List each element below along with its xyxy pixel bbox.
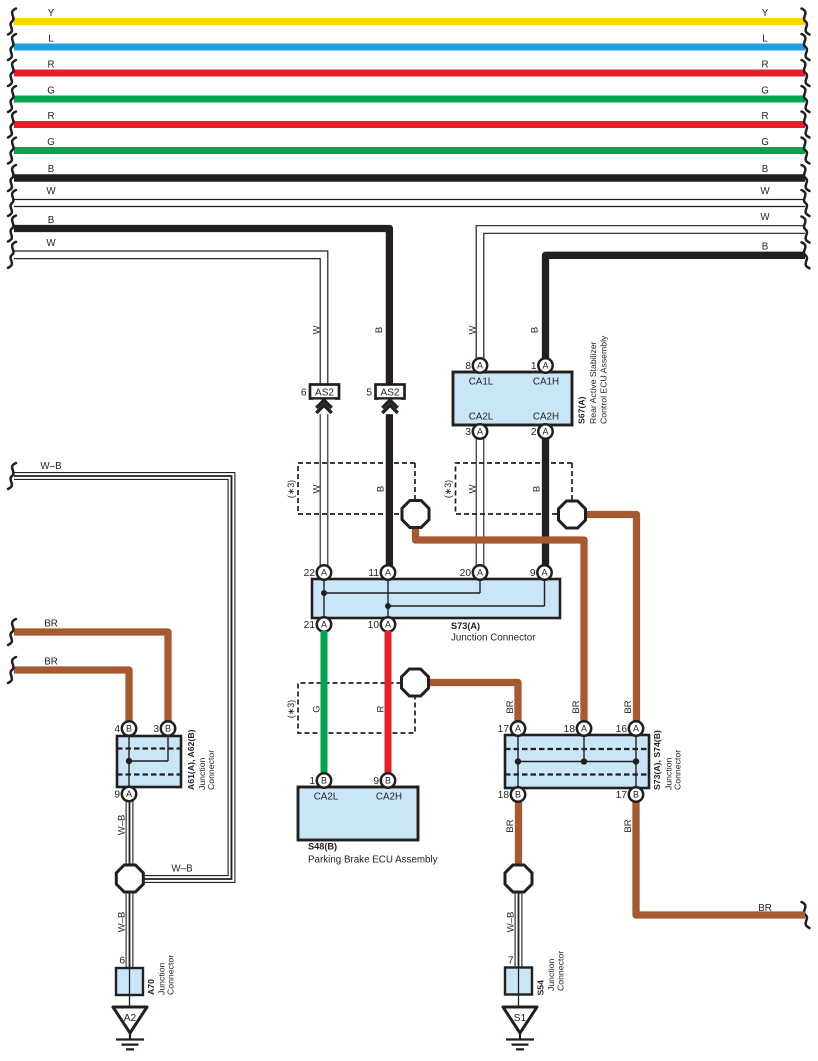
- svg-text:CA1H: CA1H: [533, 377, 559, 388]
- wire G from pin 21 to S48 pin 1: [321, 631, 328, 774]
- svg-text:BR: BR: [758, 903, 772, 914]
- svg-text:(∗3): (∗3): [286, 700, 296, 718]
- wire bus B: [14, 164, 805, 178]
- svg-text:S54: S54: [536, 980, 546, 996]
- junction connector A70: [116, 955, 176, 1007]
- wire BR left lower to A61 pin 4: [14, 657, 129, 723]
- pin 2 A of S67: [531, 424, 553, 438]
- svg-text:A2: A2: [124, 1013, 137, 1024]
- svg-text:BR: BR: [623, 819, 634, 832]
- svg-text:S67(A): S67(A): [577, 396, 587, 424]
- svg-text:9: 9: [530, 568, 536, 579]
- svg-text:BR: BR: [44, 657, 58, 668]
- wire W right vertical label: [468, 325, 479, 334]
- svg-text:S73(A): S73(A): [451, 621, 480, 631]
- svg-text:G: G: [47, 137, 55, 148]
- svg-text:CA1L: CA1L: [469, 377, 494, 388]
- wire bus G2: [14, 137, 805, 151]
- svg-text:CA2H: CA2H: [533, 412, 559, 423]
- ECU S48(B) Parking Brake ECU Assembly: [298, 787, 438, 866]
- svg-text:BR: BR: [623, 700, 634, 713]
- shield octagon 5: [505, 865, 532, 892]
- svg-text:BR: BR: [44, 619, 58, 630]
- svg-text:B: B: [530, 327, 541, 333]
- svg-text:W: W: [312, 484, 323, 493]
- pin 3 A of S67: [465, 424, 487, 438]
- wire BR from pin 18B to shield octagon 5: [515, 801, 522, 866]
- svg-text:1: 1: [531, 361, 537, 372]
- svg-text:B: B: [376, 486, 387, 492]
- svg-text:20: 20: [460, 568, 472, 579]
- wire B left to AS2 5: [14, 215, 389, 385]
- svg-text:CA2L: CA2L: [314, 792, 339, 803]
- svg-text:8: 8: [465, 361, 471, 372]
- svg-text:A: A: [515, 723, 521, 733]
- wire BR from shield octagon 1 to junction pin 18A: [416, 526, 585, 722]
- svg-text:18: 18: [498, 790, 510, 801]
- wire B right to S67 pin 1: [546, 242, 806, 359]
- wire BR from pin 17B to right edge: [636, 801, 805, 915]
- wire BR from shield octagon 2 to junction pin 16A: [585, 515, 637, 723]
- svg-text:3: 3: [153, 724, 159, 735]
- svg-text:7: 7: [508, 956, 514, 967]
- svg-text:W: W: [760, 186, 770, 197]
- svg-text:Connector: Connector: [166, 955, 176, 995]
- svg-text:W: W: [46, 238, 56, 249]
- wire bus R2: [14, 111, 805, 125]
- svg-text:W–B: W–B: [117, 912, 128, 933]
- ground triangle S1: [503, 1007, 537, 1033]
- wire B vertical label: [374, 327, 385, 333]
- svg-text:5: 5: [366, 388, 372, 399]
- svg-text:B: B: [532, 486, 543, 492]
- svg-text:S73(A), S74(B): S73(A), S74(B): [652, 730, 662, 790]
- pin 22 A of S73(A): [304, 565, 332, 579]
- ground symbol below S1: [506, 1033, 534, 1049]
- svg-text:B: B: [321, 775, 327, 785]
- svg-text:Connector: Connector: [556, 951, 566, 991]
- svg-text:10: 10: [368, 620, 380, 631]
- svg-text:Connector: Connector: [206, 750, 216, 790]
- svg-text:CA2H: CA2H: [376, 792, 402, 803]
- wire tear marks right edge: [802, 9, 810, 929]
- svg-text:A: A: [477, 567, 483, 577]
- svg-text:B: B: [385, 775, 391, 785]
- ECU S67(A) Rear Active Stabilizer Control ECU Assembly: [453, 335, 609, 425]
- svg-text:A: A: [477, 426, 483, 436]
- shield dashed box G/R (*3): [286, 683, 415, 733]
- wire W-B from octagon 5 to S54: [506, 893, 522, 968]
- ground symbol below A2: [116, 1033, 144, 1049]
- wire W-B from left bus to junction octagon: [14, 461, 235, 882]
- BR label below pin 18B: [505, 819, 516, 832]
- pin 9 B of S48: [373, 773, 395, 787]
- svg-text:CA2L: CA2L: [469, 412, 494, 423]
- pin 9 A of A61: [114, 787, 136, 801]
- pin 1 B of S48: [309, 773, 331, 787]
- shield octagon 4: [116, 865, 143, 892]
- svg-text:B: B: [633, 789, 639, 799]
- svg-text:9: 9: [373, 776, 379, 787]
- svg-text:BR: BR: [571, 700, 582, 713]
- pin 18 B of S73(A),S74(B): [498, 787, 526, 801]
- shield octagon 3: [402, 669, 429, 696]
- pin 4 B of A61: [114, 721, 136, 735]
- svg-text:A: A: [321, 567, 327, 577]
- svg-text:G: G: [47, 86, 55, 97]
- svg-text:BR: BR: [505, 700, 516, 713]
- svg-text:AS2: AS2: [381, 387, 400, 398]
- junction connector S73(A),S74(B) box: [505, 730, 683, 790]
- svg-text:G: G: [761, 137, 769, 148]
- wire bus L: [14, 34, 805, 48]
- svg-text:B: B: [762, 164, 769, 175]
- BR label above pin 16A: [623, 700, 634, 713]
- wire W right to S67 pin 8: [476, 212, 805, 359]
- wire bus Y: [14, 8, 805, 22]
- svg-text:S48(B): S48(B): [308, 842, 337, 852]
- svg-text:A: A: [385, 567, 391, 577]
- BR label below pin 17B: [623, 819, 634, 832]
- svg-text:B: B: [515, 789, 521, 799]
- svg-text:A61(A), A62(B): A61(A), A62(B): [186, 729, 196, 790]
- svg-text:Control ECU Assembly: Control ECU Assembly: [599, 335, 609, 424]
- svg-text:16: 16: [616, 724, 628, 735]
- svg-text:11: 11: [368, 568, 379, 579]
- svg-text:B: B: [762, 242, 769, 253]
- svg-text:1: 1: [309, 776, 315, 787]
- svg-text:4: 4: [114, 724, 120, 735]
- pin 18 A of S73(A),S74(B): [564, 721, 592, 735]
- svg-text:(∗3): (∗3): [286, 480, 296, 498]
- wire B right vertical label: [530, 327, 541, 333]
- shield dashed box left W/B (*3): [286, 463, 415, 514]
- BR label above pin 17A: [505, 700, 516, 713]
- svg-text:18: 18: [564, 724, 576, 735]
- svg-text:B: B: [48, 215, 55, 226]
- svg-text:A: A: [542, 426, 548, 436]
- svg-text:B: B: [165, 723, 171, 733]
- wire B from S67 pin 2 to junction S73A pin 9: [542, 439, 549, 567]
- svg-text:S1: S1: [514, 1013, 527, 1024]
- svg-text:B: B: [48, 164, 55, 175]
- svg-text:R: R: [761, 111, 768, 122]
- svg-text:(∗3): (∗3): [443, 480, 453, 498]
- svg-text:G: G: [761, 86, 769, 97]
- svg-text:W–B: W–B: [117, 815, 128, 836]
- svg-text:W–B: W–B: [171, 864, 193, 875]
- svg-text:A: A: [633, 723, 639, 733]
- svg-text:R: R: [761, 60, 768, 71]
- junction connector A61(A),A62(B) box: [117, 729, 216, 790]
- svg-text:W: W: [468, 484, 479, 493]
- wire B from AS2 5 to junction S73A pin 11: [386, 398, 393, 567]
- svg-text:Parking Brake ECU Assembly: Parking Brake ECU Assembly: [308, 855, 438, 866]
- wire R from pin 10 to S48 pin 9: [385, 631, 392, 774]
- pin 3 B of A61: [153, 721, 175, 735]
- svg-text:R: R: [47, 111, 54, 122]
- pin 9 A of S73(A): [530, 565, 552, 579]
- svg-text:A: A: [542, 360, 548, 370]
- svg-text:AS2: AS2: [315, 387, 334, 398]
- shield dashed box right W/B (*3): [443, 463, 572, 514]
- wire bus G1: [14, 86, 805, 100]
- svg-text:L: L: [48, 34, 54, 45]
- ground triangle A2: [113, 1007, 147, 1033]
- wire bus W (double line): [14, 186, 805, 207]
- svg-text:3: 3: [465, 427, 471, 438]
- svg-text:A: A: [321, 619, 327, 629]
- wire W vertical label: [312, 325, 323, 334]
- svg-text:A: A: [385, 619, 391, 629]
- connector AS2 pin 6: [301, 385, 339, 415]
- svg-text:W–B: W–B: [506, 912, 517, 933]
- svg-text:Junction Connector: Junction Connector: [451, 633, 536, 644]
- wire W from AS2 6 to junction S73A pin 22: [320, 398, 328, 567]
- svg-text:R: R: [47, 60, 54, 71]
- BR label above pin 18A: [571, 700, 582, 713]
- pin 17 A of S73(A),S74(B): [498, 721, 526, 735]
- junction connector S54: [505, 951, 566, 1007]
- svg-text:6: 6: [119, 956, 125, 967]
- pin 20 A of S73(A): [460, 565, 488, 579]
- svg-text:Y: Y: [48, 8, 55, 19]
- svg-text:W: W: [46, 186, 56, 197]
- svg-text:A70: A70: [146, 979, 156, 995]
- svg-text:21: 21: [304, 620, 316, 631]
- svg-text:B: B: [374, 327, 385, 333]
- pin 16 A of S73(A),S74(B): [616, 721, 644, 735]
- junction connector S73(A) box: [312, 579, 560, 644]
- svg-text:17: 17: [616, 790, 628, 801]
- pin 1 A of S67: [531, 358, 553, 372]
- wire BR from shield octagon 3 to junction pin 17A: [428, 683, 519, 723]
- wire W-B from A61 pin 9 to octagon 4: [117, 801, 133, 866]
- svg-text:A: A: [477, 360, 483, 370]
- pin 21 A of S73(A): [304, 617, 332, 631]
- svg-text:Connector: Connector: [673, 750, 683, 790]
- wire W from S67 pin 3 to junction S73A pin 20: [476, 439, 484, 567]
- svg-text:L: L: [762, 34, 768, 45]
- wire W left to AS2 6: [14, 238, 328, 385]
- pin 8 A of S67: [465, 358, 487, 372]
- wire W-B from octagon 4 to A70: [117, 893, 133, 969]
- svg-text:A: A: [581, 723, 587, 733]
- svg-text:W: W: [468, 325, 479, 334]
- pin 17 B of S73(A),S74(B): [616, 787, 644, 801]
- wire bus R1: [14, 60, 805, 74]
- svg-text:A: A: [541, 567, 547, 577]
- wire tear marks left edge: [8, 9, 16, 684]
- svg-text:A: A: [126, 789, 132, 799]
- shield octagon 2: [559, 501, 586, 528]
- svg-text:Rear Active Stabilizer: Rear Active Stabilizer: [588, 341, 598, 424]
- svg-text:2: 2: [531, 427, 537, 438]
- svg-text:B: B: [126, 723, 132, 733]
- svg-text:W–B: W–B: [40, 461, 62, 472]
- pin 10 A of S73(A): [368, 617, 396, 631]
- svg-text:W: W: [312, 325, 323, 334]
- svg-text:9: 9: [114, 790, 120, 801]
- pin 11 A of S73(A): [368, 565, 395, 579]
- svg-text:6: 6: [301, 388, 307, 399]
- svg-text:22: 22: [304, 568, 316, 579]
- svg-text:Junction: Junction: [546, 958, 556, 991]
- svg-text:W: W: [760, 212, 770, 223]
- svg-text:17: 17: [498, 724, 510, 735]
- shield octagon 1: [402, 501, 429, 528]
- svg-text:BR: BR: [505, 819, 516, 832]
- wire BR left upper to A61 pin 3: [14, 619, 168, 723]
- connector AS2 pin 5: [366, 385, 404, 415]
- svg-text:Y: Y: [762, 8, 769, 19]
